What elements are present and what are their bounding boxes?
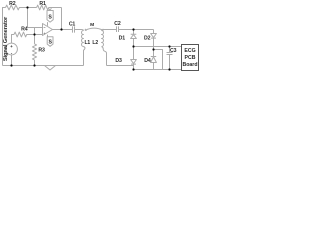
inductor L1: [82, 31, 84, 47]
svg-text:Board: Board: [183, 62, 198, 68]
wire C2 to bridge top: [119, 29, 154, 31]
svg-text:C1: C1: [69, 21, 76, 27]
svg-text:R3: R3: [38, 48, 45, 54]
svg-text:Signal Generator: Signal Generator: [3, 16, 9, 61]
ground: [45, 66, 56, 71]
resistor R1: [37, 5, 62, 10]
svg-text:C3: C3: [170, 48, 177, 54]
junction bridge top: [132, 28, 134, 30]
svg-text:C2: C2: [114, 21, 121, 27]
wire node A down to inverting input: [28, 8, 43, 28]
mutual coupling arc M: [85, 28, 103, 30]
svg-text:D1: D1: [119, 35, 126, 41]
svg-text:R1: R1: [39, 1, 46, 7]
capacitor C3: [167, 47, 173, 70]
op-amp output wire: [53, 29, 73, 31]
L1 bottom lead: [84, 47, 85, 66]
bottom rail right: [134, 69, 182, 71]
svg-text:L1: L1: [85, 40, 91, 46]
L2 top lead: [102, 30, 117, 31]
wire left edge: [3, 8, 6, 66]
svg-text:D4: D4: [144, 58, 151, 64]
wire C1 to L1: [75, 30, 84, 31]
resistor R3: [32, 44, 36, 60]
junction D1 D3 midpoint: [132, 45, 134, 47]
diode D3: [131, 47, 137, 70]
R3 bottom lead: [34, 60, 36, 66]
svg-text:M: M: [90, 22, 94, 28]
diode D4: [151, 50, 157, 70]
wire node A to R1: [28, 7, 37, 9]
resistor R2: [6, 5, 28, 10]
junction C3 bottom rail: [168, 68, 170, 70]
svg-text:D3: D3: [115, 58, 122, 64]
D2 D4 midpoint wire to rail: [154, 50, 163, 70]
power flag V+: [47, 11, 53, 23]
svg-text:L2: L2: [92, 40, 98, 46]
signal generator source V1: [6, 43, 18, 55]
source bottom lead: [11, 55, 13, 66]
wire feedback vertical: [61, 8, 63, 30]
L2 bottom lead: [102, 47, 107, 66]
op-amp input polarity marks: [44, 28, 46, 35]
arrow mark above flag: [48, 8, 51, 10]
middle wire: [134, 46, 170, 48]
capacitor C1: [73, 26, 75, 32]
svg-text:ECG: ECG: [184, 48, 195, 54]
svg-text:+: +: [10, 44, 13, 49]
ECG PCB Board box: [182, 45, 199, 71]
capacitor C2: [117, 26, 119, 32]
inductor L2: [102, 31, 104, 47]
op-amp U1: [43, 24, 53, 36]
power flag V-: [47, 37, 53, 47]
svg-text:R4: R4: [21, 27, 28, 33]
wire node B to non-inverting input: [35, 34, 43, 36]
diode D2: [151, 30, 157, 50]
wire to ECG board: [170, 46, 182, 48]
junction R3 bottom: [33, 64, 35, 66]
bottom rail left: [3, 65, 84, 67]
junction node A: [26, 6, 28, 8]
source top lead: [12, 35, 15, 44]
junction C3 top: [168, 45, 170, 47]
svg-text:D2: D2: [144, 35, 151, 41]
bottom rail middle: [107, 65, 134, 67]
wire node B up to inverting wire: [34, 28, 36, 35]
junction source bottom: [10, 64, 12, 66]
resistor R4: [14, 32, 35, 37]
junction node B: [33, 33, 35, 35]
svg-text:PCB: PCB: [185, 55, 196, 61]
wire node B down: [34, 35, 36, 44]
junction output node: [60, 28, 62, 30]
svg-text:S: S: [48, 14, 52, 20]
svg-text:R2: R2: [9, 1, 16, 7]
diode D1: [131, 30, 137, 47]
op-amp V- pin: [47, 35, 49, 37]
op-amp V+ pin: [47, 22, 49, 26]
junction D2 D4 midpoint: [152, 48, 154, 50]
junction D3 bottom rail: [132, 68, 134, 70]
